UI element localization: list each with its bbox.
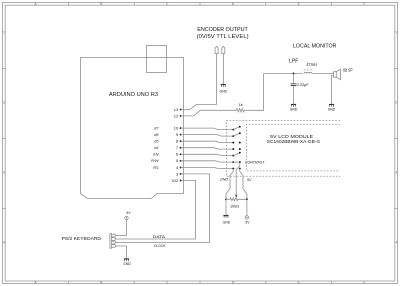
svg-text:EN: EN xyxy=(153,153,159,157)
svg-text:GND: GND xyxy=(220,178,228,182)
speaker LS1 8ohm SP xyxy=(334,67,353,79)
svg-text:PS/2 KEYBOARD: PS/2 KEYBOARD xyxy=(62,236,102,241)
svg-text:F: F xyxy=(364,2,366,6)
svg-text:1: 1 xyxy=(395,31,397,35)
wire pot left to ground xyxy=(225,199,227,215)
svg-text:LPF: LPF xyxy=(289,59,299,65)
svg-text:d4: d4 xyxy=(154,146,158,150)
wire encoder right pin to ground xyxy=(223,54,225,85)
svg-text:5V: 5V xyxy=(245,221,250,225)
wire arduino pin 4 to LCD row 7 xyxy=(181,167,234,168)
svg-text:8: 8 xyxy=(176,139,179,144)
ground encoder xyxy=(220,85,228,94)
svg-text:CONTRAST: CONTRAST xyxy=(245,160,265,164)
wire speaker to ground xyxy=(332,76,334,105)
svg-text:4: 4 xyxy=(3,241,5,245)
svg-text:GND: GND xyxy=(328,108,336,112)
svg-text:1: 1 xyxy=(3,31,5,35)
wire arduino pin 5 to LCD row 6 xyxy=(181,161,234,162)
wire LCD contrast to pot wiper xyxy=(236,162,240,195)
ground speaker xyxy=(328,105,336,112)
wire arduino pin 8 to LCD row 3 xyxy=(181,141,234,142)
svg-text:3: 3 xyxy=(3,171,5,175)
svg-text:IO2: IO2 xyxy=(172,178,179,183)
svg-text:CLOCK: CLOCK xyxy=(154,244,166,248)
wire DATA PS/2 pin2 to arduino IO2 xyxy=(116,181,196,240)
wire resistor R1 to LPF node xyxy=(244,74,263,111)
svg-text:E: E xyxy=(298,281,300,285)
wire arduino pin 7 to LCD row 4 xyxy=(181,148,234,149)
svg-text:d6: d6 xyxy=(154,133,159,137)
svg-text:0.22µF: 0.22µF xyxy=(297,83,310,87)
wire arduino pin 9 to LCD row 2 xyxy=(181,135,234,137)
ground pot xyxy=(223,216,231,225)
wire PS/2 pin1 to 5V xyxy=(116,220,127,236)
svg-text:d7: d7 xyxy=(154,127,159,131)
power 5V pot xyxy=(245,216,250,225)
PS/2 connector J3 xyxy=(110,234,116,249)
svg-text:10kΩ: 10kΩ xyxy=(230,204,239,208)
pin IO2 xyxy=(172,178,182,183)
svg-text:F: F xyxy=(364,281,366,285)
pin 5 label R/W xyxy=(151,158,181,163)
ground capacitor C1 xyxy=(290,105,298,112)
svg-text:B: B xyxy=(100,2,102,6)
svg-text:6: 6 xyxy=(176,152,179,157)
svg-text:13: 13 xyxy=(174,107,179,112)
pin 13 xyxy=(174,107,182,112)
svg-text:3: 3 xyxy=(395,171,397,175)
svg-text:E: E xyxy=(298,2,300,6)
pot wiper arrow xyxy=(235,195,237,198)
pin 7 label d4 xyxy=(154,145,181,150)
svg-text:47mH: 47mH xyxy=(306,62,316,67)
wire inductor to speaker xyxy=(312,73,334,75)
svg-text:2: 2 xyxy=(3,101,5,105)
svg-text:9: 9 xyxy=(176,132,179,137)
arduino board U1 ARDUINO UNO R3 xyxy=(81,58,184,199)
LCD pin row 6 contrast xyxy=(232,160,265,164)
pin 3 xyxy=(176,171,182,176)
svg-text:d5: d5 xyxy=(154,140,159,144)
wire LCD gnd pin down to pot xyxy=(220,169,233,200)
pin 6 label EN xyxy=(153,152,181,157)
ground keyboard xyxy=(123,259,131,266)
encoder output pin J1 xyxy=(215,46,218,53)
svg-text:GND: GND xyxy=(220,90,228,94)
LCD module outer dashed box xyxy=(227,121,341,177)
LCD pin row 4 xyxy=(232,148,240,150)
svg-text:DATA: DATA xyxy=(153,235,166,239)
svg-text:7: 7 xyxy=(176,145,179,150)
wire arduino pin 10 to LCD row 1 xyxy=(181,128,234,130)
svg-text:10: 10 xyxy=(174,126,179,131)
wire encoder left pin to arduino pin 13 xyxy=(181,54,217,110)
LCD pin row 5 xyxy=(232,152,240,157)
wire LPF node to inductor xyxy=(264,73,304,75)
LCD module inner dashed box xyxy=(246,124,340,171)
pin 12 xyxy=(174,113,182,118)
capacitor C1 0.22uF xyxy=(291,74,310,105)
LCD pin row 1 xyxy=(232,126,240,131)
wire arduino pin 12 to resistor R1 xyxy=(181,110,237,116)
svg-text:5V: 5V xyxy=(126,211,131,215)
wire pot right to 5v xyxy=(246,199,248,215)
LCD pin row 3 xyxy=(232,142,240,144)
pin 4 label RS xyxy=(153,165,181,170)
svg-text:GND: GND xyxy=(223,220,231,224)
power 5V keyboard xyxy=(125,211,131,220)
encoder output pin J2 xyxy=(222,46,225,53)
LCD module labels xyxy=(267,134,321,144)
wire PS/2 pin4 to ground xyxy=(116,246,127,259)
svg-text:ENCODER OUTPUT: ENCODER OUTPUT xyxy=(197,27,248,33)
wire arduino pin 6 to LCD row 5 xyxy=(181,154,234,155)
svg-text:1k: 1k xyxy=(239,103,243,107)
LCD pin row 2 xyxy=(232,132,240,137)
svg-text:3: 3 xyxy=(176,171,179,176)
svg-text:2: 2 xyxy=(395,101,397,105)
svg-text:LOCAL MONITOR: LOCAL MONITOR xyxy=(293,44,336,50)
LCD pin row 7 power xyxy=(232,168,240,170)
svg-text:ARDUINO UNO R3: ARDUINO UNO R3 xyxy=(109,92,158,98)
pin 9 label d6 xyxy=(154,132,181,137)
svg-text:5: 5 xyxy=(176,158,179,163)
encoder output label xyxy=(197,27,249,40)
svg-text:4: 4 xyxy=(176,165,179,170)
svg-text:R/W: R/W xyxy=(151,159,159,163)
svg-text:GND: GND xyxy=(123,262,131,266)
svg-text:4: 4 xyxy=(395,241,397,245)
svg-text:GND: GND xyxy=(290,108,298,112)
svg-text:B: B xyxy=(100,281,102,285)
inductor L1 47mH xyxy=(304,62,317,74)
svg-text:5V: 5V xyxy=(247,178,252,182)
svg-text:8Ω SP: 8Ω SP xyxy=(343,67,353,72)
svg-text:RS: RS xyxy=(153,166,159,170)
node junction LPF / C1 xyxy=(293,73,295,75)
svg-text:(0V/5V TTL LEVEL): (0V/5V TTL LEVEL) xyxy=(197,34,249,40)
pin 8 label d5 xyxy=(154,139,181,144)
svg-text:SC1602BBWB-XA-GB-G: SC1602BBWB-XA-GB-G xyxy=(267,139,321,144)
svg-text:12: 12 xyxy=(174,113,179,118)
usb connector square on arduino xyxy=(147,46,167,73)
resistor R1 1k xyxy=(236,103,244,112)
wire LCD 5v pin down to pot xyxy=(240,169,252,200)
wire CLOCK PS/2 pin3 to arduino pin 3 xyxy=(116,174,210,248)
pin 10 label d7 xyxy=(154,126,181,131)
potentiometer RV1 10k xyxy=(225,198,248,209)
